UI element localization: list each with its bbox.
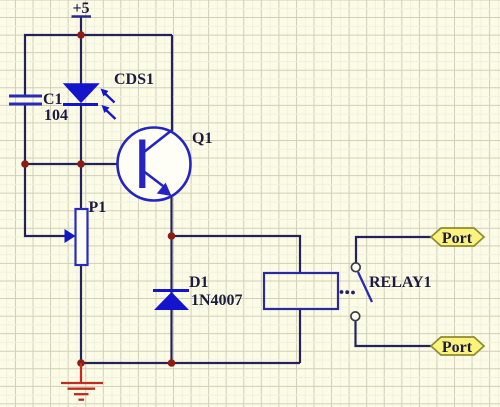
wire emitter drop — [170, 193, 172, 363]
wire emitter to relay coil — [172, 236, 301, 273]
wire cds bottom — [80, 105, 82, 164]
node +5/rail — [77, 31, 85, 39]
capacitor C1 — [9, 96, 42, 104]
svg-text:CDS1: CDS1 — [114, 71, 154, 88]
node emitter/coil — [168, 232, 176, 240]
svg-text:RELAY1: RELAY1 — [369, 274, 432, 291]
node ground rail left — [77, 359, 85, 367]
wire pot bottom — [80, 265, 82, 363]
svg-text:C1: C1 — [43, 91, 63, 108]
wire pot top — [80, 164, 82, 209]
wire +5 stem — [80, 17, 82, 35]
svg-text:P1: P1 — [89, 199, 107, 216]
relay switch contacts — [351, 263, 372, 321]
wire bottom rail — [81, 362, 300, 364]
wire base — [25, 163, 139, 165]
wire switch bottom to port — [356, 321, 432, 347]
node left/base — [21, 160, 29, 168]
wire relay coil bottom — [299, 309, 301, 363]
wire top rail — [24, 34, 172, 36]
diode D1 — [153, 291, 189, 311]
potentiometer P1 — [65, 209, 88, 265]
relay coil box — [264, 273, 338, 309]
photodiode CDS1 — [63, 84, 116, 119]
wire switch top to port — [356, 237, 431, 263]
wire collector drop — [171, 35, 173, 131]
node diode/ground rail — [168, 359, 176, 367]
svg-text:104: 104 — [44, 107, 68, 124]
svg-text:Port: Port — [442, 339, 473, 356]
node cds/base — [77, 160, 85, 168]
port top — [431, 228, 484, 247]
svg-text:D1: D1 — [189, 274, 209, 291]
ground — [61, 363, 103, 400]
port bottom — [431, 337, 484, 356]
relay dotted link — [340, 290, 355, 294]
svg-text:Q1: Q1 — [192, 130, 212, 147]
wire left rail lower + wiper feed — [25, 105, 66, 237]
wire left rail upper — [24, 34, 26, 96]
power +5 — [72, 0, 92, 17]
transistor Q1 — [118, 128, 191, 201]
svg-text:1N4007: 1N4007 — [191, 292, 243, 309]
svg-text:+5: +5 — [72, 0, 89, 17]
wire cds top — [80, 35, 82, 85]
svg-text:Port: Port — [442, 230, 473, 247]
